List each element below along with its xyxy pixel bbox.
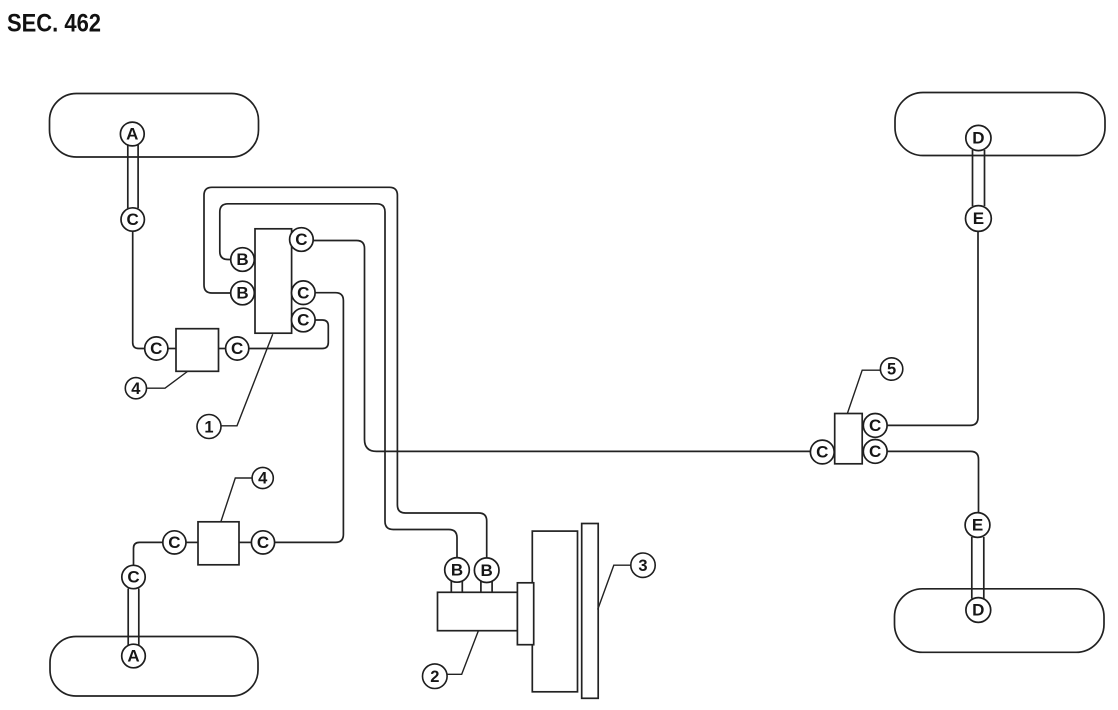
svg-text:4: 4: [131, 380, 141, 398]
svg-text:C: C: [869, 442, 881, 461]
svg-text:5: 5: [887, 361, 896, 379]
node B unit1 lower: [231, 281, 255, 305]
pipe unit1 middle C to connector 4b right C: [275, 293, 344, 543]
leader line callout 4b: [221, 478, 252, 522]
svg-text:1: 1: [204, 418, 213, 436]
connector 4a square: [176, 329, 219, 372]
svg-text:C: C: [168, 533, 180, 552]
callout numbers: [131, 361, 896, 686]
node C right of 4a: [226, 337, 249, 360]
leader line callout 2: [447, 631, 478, 674]
callout 2: [423, 664, 448, 689]
stub 4a right: [219, 348, 226, 350]
master cylinder body: [438, 592, 518, 630]
svg-text:C: C: [127, 210, 139, 229]
callout circles (numbers): [125, 358, 903, 689]
connector 5 body: [835, 414, 863, 464]
hose D-E front-right (double line): [973, 150, 985, 206]
pipe unit1 bottom C to connector 4a right C: [249, 320, 328, 349]
pipe unit1 upper B to master cylinder left B: [220, 204, 457, 558]
hose E-D rear-right (double line): [972, 537, 984, 599]
master cylinder right B stub: [481, 580, 492, 592]
callout 5: [880, 358, 902, 380]
node C right of 4b: [251, 531, 274, 554]
callout 1: [197, 415, 221, 439]
hose C-A rear-left (double line): [128, 589, 139, 646]
tire rear-left: [50, 637, 258, 697]
svg-text:SEC. 462: SEC. 462: [7, 10, 101, 38]
pipe unit1 top C to connector 5 left C: [313, 241, 811, 452]
leader line callout 1: [221, 334, 273, 426]
svg-text:C: C: [869, 416, 881, 435]
callout 4b: [252, 467, 273, 488]
stub 4b right: [239, 541, 251, 543]
pipe front-left: C down to connector 4a left C: [133, 231, 145, 349]
callout 3: [631, 553, 655, 577]
node D rear-right: [966, 598, 991, 623]
svg-text:D: D: [972, 601, 984, 620]
svg-text:C: C: [231, 339, 243, 358]
svg-text:D: D: [972, 129, 984, 148]
leader line callout 3: [598, 565, 631, 609]
node C left of 4a: [145, 337, 168, 360]
svg-text:A: A: [126, 125, 138, 144]
stub 4a left: [168, 348, 176, 350]
node C above rear-left A: [122, 565, 145, 588]
node B unit1 upper: [231, 248, 255, 272]
svg-text:C: C: [297, 311, 309, 330]
node C left of 4b: [163, 531, 186, 554]
node C connector5 top right: [863, 414, 887, 438]
master cylinder left B stub: [451, 580, 462, 592]
node B master cylinder right: [474, 558, 499, 583]
svg-text:C: C: [295, 230, 307, 249]
svg-text:3: 3: [638, 557, 647, 575]
node C connector5 left: [810, 440, 834, 464]
circle letters: [126, 125, 984, 666]
hose A-C front-left (double line): [128, 145, 138, 208]
svg-text:E: E: [973, 209, 984, 228]
booster mounting plate: [582, 524, 599, 699]
node A rear-left: [122, 644, 146, 668]
svg-text:E: E: [972, 516, 983, 535]
node E front-right: [966, 206, 992, 232]
svg-text:C: C: [297, 283, 309, 302]
connector circles (letters): [120, 122, 991, 668]
callout 4a: [125, 378, 146, 399]
pipe connector 5 bottom C to rear-right E: [887, 451, 979, 512]
unit 1 body: [255, 229, 292, 333]
node C below A front-left: [121, 208, 144, 231]
svg-text:C: C: [257, 533, 269, 552]
node A front-left: [120, 122, 144, 146]
svg-text:B: B: [236, 284, 248, 303]
svg-text:B: B: [451, 561, 463, 580]
tire rear-right: [895, 589, 1105, 653]
node C unit1 middle: [292, 281, 316, 305]
tire front-right: [895, 93, 1105, 156]
svg-text:4: 4: [258, 470, 268, 488]
svg-text:A: A: [127, 647, 139, 666]
svg-text:B: B: [236, 250, 248, 269]
svg-text:B: B: [481, 561, 493, 580]
node E rear-right: [965, 513, 990, 538]
pipe connector 5 top C to front-right E: [887, 232, 978, 426]
node C connector5 bottom right: [863, 440, 887, 464]
booster body: [532, 531, 577, 692]
node D front-right: [966, 125, 991, 150]
pipe rear-left: C up to connector 4b left C: [134, 542, 164, 565]
master cylinder flange: [517, 583, 533, 645]
svg-text:2: 2: [430, 668, 439, 686]
node C unit1 top: [290, 228, 314, 252]
svg-text:C: C: [816, 443, 828, 462]
stub 4b left: [186, 541, 198, 543]
svg-text:C: C: [127, 568, 139, 587]
pipe unit1 lower B to master cylinder right B: [204, 187, 487, 558]
node C unit1 bottom: [292, 308, 316, 332]
connector 4b square: [198, 522, 239, 565]
tire front-left: [50, 94, 259, 158]
leader line callout 5: [847, 370, 880, 413]
leader line callout 4a: [146, 372, 187, 389]
svg-text:C: C: [150, 339, 162, 358]
node B master cylinder left: [445, 558, 470, 583]
